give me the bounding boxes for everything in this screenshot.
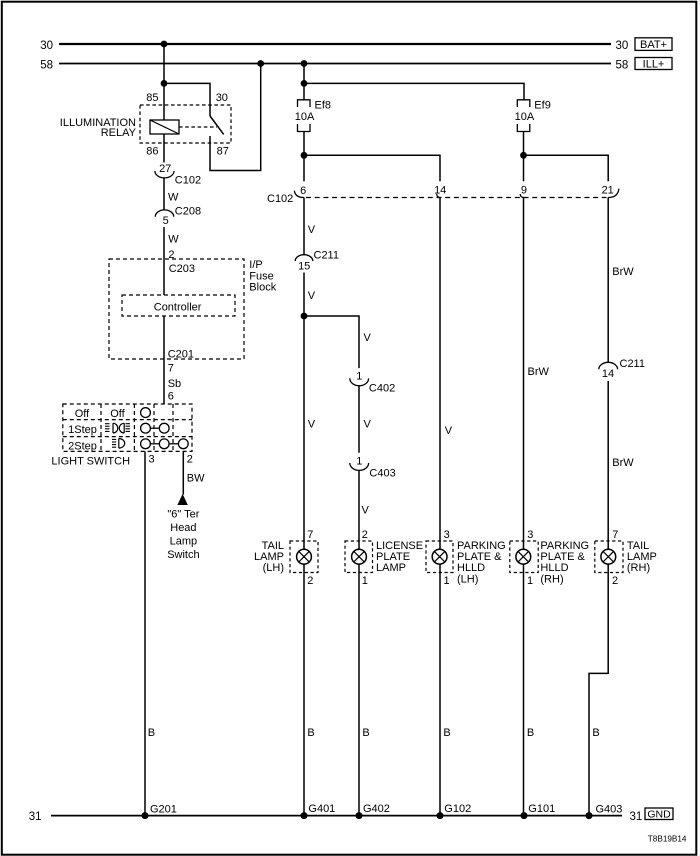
connector C102 pin 27 bbox=[155, 163, 201, 187]
svg-text:6: 6 bbox=[168, 391, 174, 403]
svg-text:Head: Head bbox=[170, 522, 196, 534]
svg-text:3: 3 bbox=[149, 454, 155, 466]
svg-text:2: 2 bbox=[187, 454, 193, 466]
node: junction relay branch to contact 30 bbox=[161, 80, 168, 87]
wire W to I/P fuse block bbox=[163, 227, 165, 295]
svg-text:31: 31 bbox=[29, 811, 42, 823]
fuse Ef8 10A bbox=[295, 99, 331, 131]
bus 30 (BAT+) bbox=[40, 40, 628, 52]
light switch contacts row3 bbox=[141, 439, 189, 449]
svg-text:B: B bbox=[443, 727, 450, 739]
wire BrW col4 to lamp4 bbox=[524, 198, 550, 550]
svg-text:(RH): (RH) bbox=[627, 562, 650, 574]
wire: Ef8 to C102 row bbox=[303, 132, 305, 182]
svg-text:6: 6 bbox=[300, 185, 306, 197]
wire: relay 87 to bus58 bbox=[210, 64, 261, 171]
svg-text:30: 30 bbox=[616, 40, 629, 52]
wire: branch to col3 bbox=[304, 155, 440, 181]
svg-text:Block: Block bbox=[249, 282, 276, 294]
light switch contacts row1 bbox=[141, 408, 151, 418]
svg-text:LAMP: LAMP bbox=[376, 562, 406, 574]
svg-text:85: 85 bbox=[146, 92, 158, 104]
svg-text:C102: C102 bbox=[267, 193, 293, 205]
lamp: TAIL LAMP (RH) bbox=[595, 529, 657, 587]
off-page arrow: "6" Ter Head Lamp Switch bbox=[167, 494, 200, 561]
bus 58 (ILL+) bbox=[40, 59, 628, 71]
node G402 bbox=[356, 803, 390, 819]
wire V col1 to C211-15 bbox=[304, 198, 316, 255]
svg-text:15: 15 bbox=[298, 260, 310, 272]
svg-text:BrW: BrW bbox=[612, 457, 634, 469]
svg-text:V: V bbox=[364, 332, 372, 344]
BAT+ label box bbox=[635, 38, 672, 51]
svg-text:1: 1 bbox=[444, 575, 450, 587]
svg-text:Switch: Switch bbox=[167, 549, 199, 561]
controller box bbox=[122, 295, 235, 316]
svg-text:C201: C201 bbox=[168, 349, 194, 361]
ground bus 31 bbox=[29, 811, 643, 823]
light switch row3 headlamp icon bbox=[112, 439, 125, 449]
svg-text:G201: G201 bbox=[150, 803, 177, 815]
node G401 bbox=[301, 803, 336, 819]
connector C211 pin 15 bbox=[295, 249, 339, 272]
lamp: TAIL LAMP (LH) bbox=[254, 529, 318, 587]
svg-text:87: 87 bbox=[217, 146, 229, 158]
node G403 bbox=[586, 803, 623, 819]
ILL+ label box bbox=[635, 58, 672, 71]
wire: bus58 down to Ef8 bbox=[303, 64, 305, 100]
lamp: LICENSE PLATE LAMP bbox=[345, 529, 423, 587]
wire V col2 bbox=[359, 386, 372, 453]
svg-text:C402: C402 bbox=[369, 382, 395, 394]
connector C211 pin 14 bbox=[599, 358, 645, 380]
light switch row2 headlamp icons bbox=[105, 423, 130, 433]
svg-text:C208: C208 bbox=[175, 206, 201, 218]
svg-text:30: 30 bbox=[216, 92, 228, 104]
svg-text:Off: Off bbox=[110, 408, 125, 420]
svg-text:C102: C102 bbox=[175, 175, 201, 187]
node: junction dot bus30 / relay feed bbox=[161, 41, 168, 48]
svg-text:21: 21 bbox=[602, 184, 614, 196]
wire V col1 to junction bbox=[304, 273, 316, 317]
svg-text:C203: C203 bbox=[169, 263, 195, 275]
svg-text:Sb: Sb bbox=[168, 378, 181, 390]
svg-text:7: 7 bbox=[612, 529, 618, 541]
svg-text:C211: C211 bbox=[314, 249, 339, 261]
svg-text:58: 58 bbox=[40, 59, 53, 71]
illumination relay K1 bbox=[60, 92, 231, 158]
wire V col2 to lamp2 bbox=[359, 470, 370, 549]
wire: relay 86 down bbox=[163, 134, 165, 163]
svg-text:G102: G102 bbox=[444, 803, 471, 815]
wire: branch to Ef9 bbox=[304, 83, 524, 99]
wire B lamp1 to G401 bbox=[304, 564, 315, 816]
svg-text:2: 2 bbox=[362, 529, 368, 541]
svg-text:7: 7 bbox=[307, 529, 313, 541]
wire BrW col5 to C211-14 bbox=[608, 198, 634, 363]
svg-text:C211: C211 bbox=[620, 358, 645, 370]
svg-text:7: 7 bbox=[168, 362, 174, 374]
svg-text:LIGHT SWITCH: LIGHT SWITCH bbox=[51, 455, 130, 467]
svg-text:2Step: 2Step bbox=[68, 440, 97, 452]
wire: branch to relay contact 30 bbox=[164, 83, 210, 116]
wire B lamp5 to G403 (with jog) bbox=[589, 564, 608, 816]
svg-text:30: 30 bbox=[40, 40, 53, 52]
lamp: PARKING PLATE & HLLD (LH) bbox=[426, 529, 506, 587]
svg-text:B: B bbox=[307, 727, 314, 739]
svg-text:V: V bbox=[308, 224, 316, 236]
svg-text:G101: G101 bbox=[528, 803, 555, 815]
light switch S1 bbox=[63, 404, 192, 452]
wire: branch to col2 bbox=[304, 316, 359, 368]
svg-text:10A: 10A bbox=[515, 111, 535, 123]
svg-text:C403: C403 bbox=[369, 468, 395, 480]
node: junction bus58 feed fuses bbox=[301, 60, 308, 67]
svg-text:B: B bbox=[148, 727, 155, 739]
svg-text:Fuse: Fuse bbox=[249, 270, 273, 282]
svg-text:V: V bbox=[362, 504, 370, 516]
connector C403 pin 1 bbox=[350, 456, 396, 480]
svg-text:5: 5 bbox=[163, 215, 169, 227]
svg-text:G401: G401 bbox=[308, 803, 335, 815]
wire: light switch pin3 to G201 bbox=[144, 451, 146, 815]
svg-text:BrW: BrW bbox=[528, 366, 550, 378]
svg-text:B: B bbox=[527, 727, 534, 739]
svg-text:(LH): (LH) bbox=[263, 562, 284, 574]
svg-text:9: 9 bbox=[521, 185, 527, 197]
svg-text:V: V bbox=[308, 290, 316, 302]
svg-text:ILL+: ILL+ bbox=[643, 58, 665, 70]
node G102 bbox=[437, 803, 472, 819]
connector C208 pin 5 bbox=[155, 206, 201, 228]
svg-text:3: 3 bbox=[444, 529, 450, 541]
node: junction below Ef9 bbox=[520, 152, 527, 159]
svg-text:2: 2 bbox=[612, 575, 618, 587]
svg-text:58: 58 bbox=[616, 59, 629, 71]
wire BrW col5 to lamp5 bbox=[608, 381, 634, 549]
svg-text:Controller: Controller bbox=[154, 301, 202, 313]
svg-text:14: 14 bbox=[602, 368, 614, 380]
wire B lamp2 to G402 bbox=[359, 564, 370, 816]
svg-text:1: 1 bbox=[362, 575, 368, 587]
node G201 bbox=[142, 803, 177, 819]
wire V col3 to lamp3 bbox=[440, 198, 453, 550]
svg-text:"6" Ter: "6" Ter bbox=[167, 508, 199, 520]
svg-text:BW: BW bbox=[187, 472, 205, 484]
svg-text:1: 1 bbox=[527, 575, 533, 587]
svg-text:(RH): (RH) bbox=[540, 573, 563, 585]
wire: bus30 down to relay coil bbox=[163, 44, 165, 120]
svg-text:3: 3 bbox=[527, 529, 533, 541]
wire: Ef9 to C102 row bbox=[523, 132, 525, 182]
wire V col1 to lamp1 bbox=[304, 316, 316, 549]
node: junction on bus58 at x=261 bbox=[257, 60, 264, 67]
svg-text:1: 1 bbox=[356, 370, 362, 382]
svg-text:(LH): (LH) bbox=[457, 573, 478, 585]
lamp: PARKING PLATE & HLLD (RH) bbox=[510, 529, 589, 587]
svg-text:I/P: I/P bbox=[249, 259, 262, 271]
wire BW to head lamp switch bbox=[183, 451, 205, 494]
svg-text:GND: GND bbox=[647, 808, 671, 820]
light switch contacts row2 bbox=[141, 423, 170, 433]
node: junction col1/col2 bbox=[301, 313, 308, 320]
fuse Ef9 10A bbox=[515, 99, 551, 131]
svg-text:V: V bbox=[445, 425, 453, 437]
svg-text:86: 86 bbox=[146, 146, 158, 158]
svg-text:RELAY: RELAY bbox=[101, 127, 137, 139]
I/P fuse block box bbox=[109, 259, 277, 359]
svg-text:1Step: 1Step bbox=[68, 424, 97, 436]
svg-text:10A: 10A bbox=[295, 111, 315, 123]
node: junction below Ef8 bbox=[301, 152, 308, 159]
wire B lamp4 to G101 bbox=[524, 564, 535, 816]
svg-text:Lamp: Lamp bbox=[170, 536, 198, 548]
svg-text:31: 31 bbox=[630, 811, 643, 823]
wire: branch to col5 bbox=[524, 155, 609, 181]
svg-text:14: 14 bbox=[434, 185, 446, 197]
svg-text:T8B19B14: T8B19B14 bbox=[648, 834, 687, 843]
svg-text:B: B bbox=[362, 727, 369, 739]
connector C102 row bbox=[267, 184, 619, 205]
svg-text:V: V bbox=[364, 419, 372, 431]
GND label box bbox=[645, 808, 673, 820]
svg-text:2: 2 bbox=[307, 575, 313, 587]
svg-text:27: 27 bbox=[159, 163, 171, 175]
svg-text:BrW: BrW bbox=[612, 266, 634, 278]
svg-text:Ef9: Ef9 bbox=[534, 99, 551, 111]
svg-text:BAT+: BAT+ bbox=[640, 39, 667, 51]
wire: controller to light switch, C201 pin 7, Sb bbox=[164, 316, 194, 404]
wire B lamp3 to G102 bbox=[440, 564, 451, 816]
svg-text:Ef8: Ef8 bbox=[315, 99, 332, 111]
svg-text:W: W bbox=[168, 233, 179, 245]
svg-text:1: 1 bbox=[356, 456, 362, 468]
connector C402 pin 1 bbox=[350, 370, 395, 394]
svg-text:G403: G403 bbox=[596, 803, 623, 815]
svg-text:V: V bbox=[308, 419, 316, 431]
svg-text:B: B bbox=[592, 727, 599, 739]
node G101 bbox=[521, 803, 556, 819]
svg-text:G402: G402 bbox=[363, 803, 390, 815]
node: junction branch to Ef9 bbox=[301, 80, 308, 87]
svg-text:W: W bbox=[168, 192, 179, 204]
svg-text:Off: Off bbox=[75, 408, 90, 420]
wire W bbox=[163, 178, 165, 210]
